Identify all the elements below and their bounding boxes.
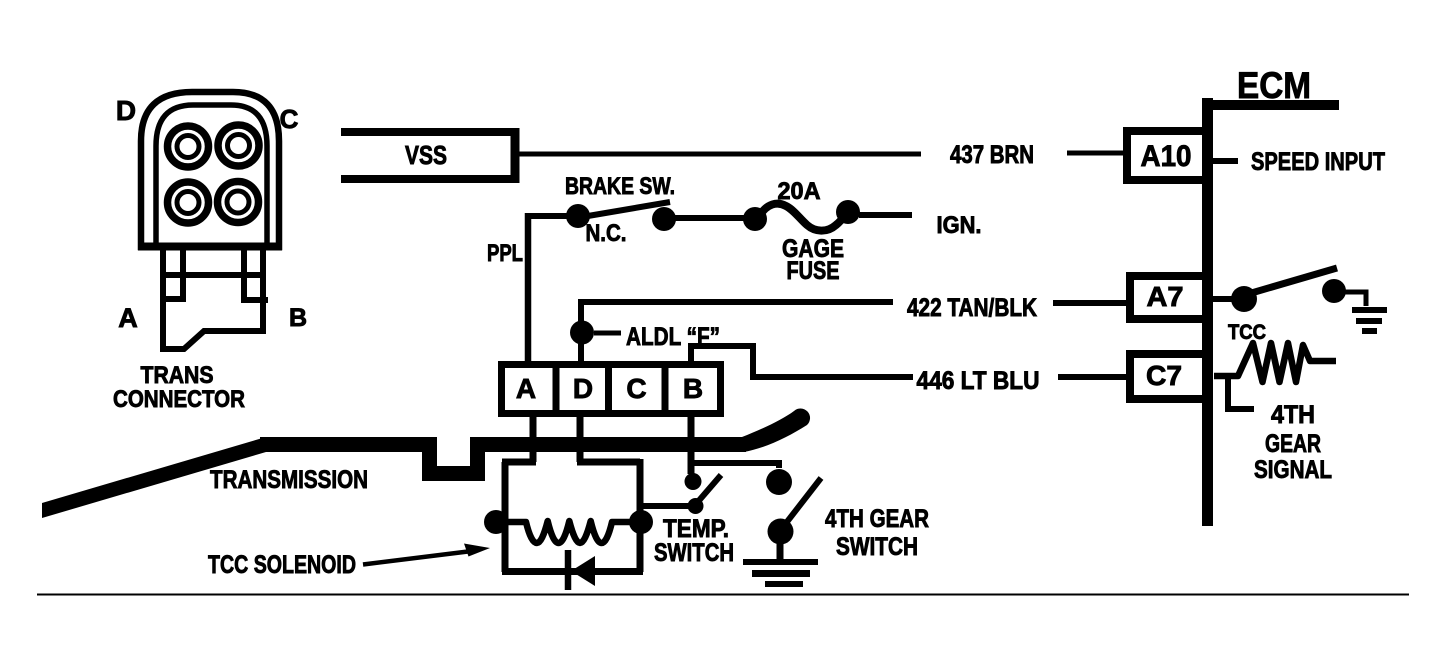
wire A7 to TCC switch (1213, 296, 1233, 302)
wire 4th gear signal stub (1228, 378, 1254, 409)
svg-text:446 LT BLU: 446 LT BLU (917, 367, 1040, 395)
transmission band (42, 437, 746, 518)
svg-text:4TH: 4TH (1271, 401, 1315, 429)
svg-text:GEAR: GEAR (1265, 430, 1321, 458)
wire D riser to 422 (578, 302, 584, 362)
svg-text:B: B (683, 373, 703, 404)
wire A below block (530, 414, 537, 462)
svg-text:SWITCH: SWITCH (654, 539, 734, 567)
4th gear switch lower contact (768, 519, 794, 545)
wire brake to fuse (674, 215, 745, 221)
wire 437 left segment (519, 152, 921, 157)
svg-text:SWITCH: SWITCH (836, 533, 918, 561)
transmission band tip (742, 408, 810, 452)
svg-text:PPL: PPL (487, 240, 523, 267)
svg-text:A: A (118, 303, 138, 333)
wire TCC switch to ground (1345, 292, 1366, 306)
svg-text:437 BRN: 437 BRN (950, 141, 1034, 169)
wire B below block (688, 414, 695, 474)
trans connector body inner (156, 105, 267, 244)
terminal C circle (218, 125, 259, 166)
solenoid coil (507, 521, 632, 543)
wire ALDL stub (594, 331, 621, 336)
temp switch blade (696, 475, 721, 504)
TCC switch right contact (1322, 279, 1346, 303)
wire PPL corner to brake switch (528, 213, 568, 219)
svg-text:20A: 20A (778, 178, 821, 205)
svg-text:C: C (280, 104, 299, 134)
svg-text:FUSE: FUSE (787, 257, 840, 285)
wire 422 right segment (1053, 300, 1130, 306)
connector block ADCB (502, 365, 721, 414)
solenoid box top left segment (502, 459, 536, 466)
fuse left contact (743, 207, 767, 231)
arrow to solenoid (363, 551, 472, 565)
svg-text:SPEED INPUT: SPEED INPUT (1251, 148, 1385, 176)
solenoid box top right segment (577, 459, 640, 466)
pin box C7 (1130, 354, 1207, 399)
solenoid box left edge (502, 462, 509, 572)
trans connector body outer (141, 92, 279, 247)
4th gear switch blade (783, 478, 821, 527)
diode cathode bar (565, 550, 572, 590)
svg-text:4TH GEAR: 4TH GEAR (825, 505, 929, 533)
temp switch lower contact (688, 498, 704, 514)
svg-text:D: D (116, 95, 136, 126)
wire fuse to IGN (859, 212, 912, 218)
resistor TCC coil (1214, 343, 1336, 382)
wire B riser to 446 (691, 346, 913, 377)
TCC switch blade (1248, 268, 1337, 294)
svg-text:422 TAN/BLK: 422 TAN/BLK (907, 294, 1037, 322)
wire solenoid to temp switch (640, 503, 694, 509)
terminal A circle (168, 182, 209, 223)
VSS box (341, 132, 516, 179)
svg-text:IGN.: IGN. (937, 212, 982, 239)
connector stem crossbar (160, 272, 266, 278)
pin box A7 (1130, 276, 1207, 319)
svg-text:TCC: TCC (1228, 321, 1266, 344)
svg-text:C7: C7 (1146, 360, 1182, 391)
svg-text:A7: A7 (1147, 281, 1184, 312)
svg-text:N.C.: N.C. (586, 220, 627, 247)
connector stem right cap (241, 297, 268, 303)
solenoid coil right node (629, 510, 653, 534)
brake switch blade (582, 202, 670, 217)
ground TCC switch (1352, 310, 1387, 331)
wire D below block (577, 414, 584, 462)
connector block dividers (556, 365, 665, 413)
svg-text:TCC SOLENOID: TCC SOLENOID (208, 551, 356, 579)
svg-text:ECM: ECM (1237, 65, 1311, 106)
svg-text:TRANS: TRANS (141, 362, 214, 389)
terminal B circle (218, 182, 259, 223)
svg-text:C: C (626, 373, 646, 404)
svg-text:BRAKE SW.: BRAKE SW. (565, 173, 675, 200)
wire PPL vertical (525, 213, 532, 362)
connector stem inner walls (183, 247, 244, 297)
wire 446 right segment (1058, 374, 1130, 380)
4th gear switch upper contact (766, 469, 792, 495)
ECM top bar (1202, 100, 1339, 110)
bottom separator line (37, 594, 1409, 596)
fuse right contact (836, 200, 860, 224)
diode triangle (571, 556, 595, 586)
solenoid box bottom edge (502, 568, 643, 575)
svg-text:D: D (573, 373, 593, 404)
wire 422 horizontal (578, 299, 893, 305)
fuse element (760, 204, 846, 231)
solenoid coil left node (484, 510, 508, 534)
pin box A10 (1127, 131, 1207, 180)
TCC switch left contact (1231, 286, 1257, 312)
svg-text:B: B (289, 304, 307, 332)
svg-text:TRANSMISSION: TRANSMISSION (210, 466, 368, 494)
terminal D circle (168, 126, 209, 167)
speed input stub (1213, 158, 1238, 164)
connector stem outline (163, 247, 263, 349)
node ALDL junction (570, 321, 594, 345)
svg-text:CONNECTOR: CONNECTOR (113, 386, 245, 413)
brake switch left contact (566, 204, 590, 228)
svg-text:SIGNAL: SIGNAL (1254, 456, 1332, 484)
wire 437 right segment (1067, 151, 1127, 156)
brake switch right contact (652, 207, 676, 231)
ECM vertical bar (1202, 98, 1213, 526)
temp switch upper contact (685, 473, 702, 490)
svg-text:A10: A10 (1141, 140, 1192, 173)
connector stem left cap (160, 296, 186, 302)
wire B to 4th gear switch (691, 463, 779, 468)
svg-text:A: A (516, 373, 536, 404)
wire 4th gear to ground (777, 542, 784, 559)
solenoid box right edge (637, 459, 644, 572)
trans connector bottom edge (138, 243, 282, 251)
svg-text:VSS: VSS (405, 140, 447, 170)
ground 4th gear switch (743, 562, 818, 584)
